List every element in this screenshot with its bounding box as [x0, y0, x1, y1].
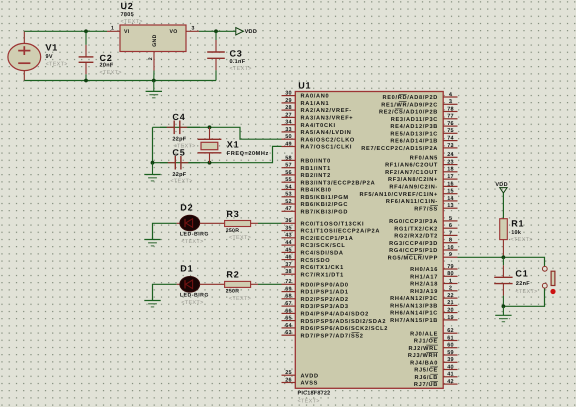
svg-text:RF2/AN7/C1OUT: RF2/AN7/C1OUT	[385, 169, 438, 176]
svg-text:RD7/PSP7/AD7/SS2: RD7/PSP7/AD7/SS2	[301, 332, 364, 339]
U1 left pin names group 4	[301, 373, 319, 386]
svg-text:RG1/TX2/CK2: RG1/TX2/CK2	[394, 225, 438, 232]
svg-text:RH5/AN13/P3B: RH5/AN13/P3B	[390, 303, 438, 310]
svg-text:RA6/OSC2/CLKO: RA6/OSC2/CLKO	[301, 136, 355, 143]
ground symbol below C1	[502, 306, 504, 315]
U1 right pin names group 1	[359, 154, 438, 212]
svg-text:R1: R1	[511, 219, 524, 229]
U1 left pin stubs group 3	[282, 284, 296, 335]
junction at crystal bottom	[208, 161, 212, 165]
svg-text:37: 37	[285, 262, 292, 268]
svg-text:RC3/SCK/SCL: RC3/SCK/SCL	[301, 242, 346, 249]
svg-text:69: 69	[285, 287, 292, 293]
U1 left pin stubs group 2	[282, 223, 296, 274]
svg-text:65: 65	[285, 316, 292, 322]
svg-text:RE3/AD11/P3C: RE3/AD11/P3C	[391, 116, 438, 123]
wire: U2 GND pin to ground rail	[153, 71, 155, 81]
junction at C2 bottom	[84, 79, 88, 83]
svg-text:RF1/AN6/C2OUT: RF1/AN6/C2OUT	[385, 162, 438, 169]
svg-text:54: 54	[285, 184, 292, 190]
U1 right pin stubs group 3	[443, 269, 457, 320]
svg-text:RB1/INT1: RB1/INT1	[301, 165, 331, 172]
svg-text:47: 47	[285, 206, 292, 212]
svg-text:RA4/T0CKI: RA4/T0CKI	[301, 122, 336, 129]
svg-text:VDD: VDD	[245, 29, 258, 35]
svg-text:RA1/AN1: RA1/AN1	[301, 100, 330, 107]
svg-text:RB6/KBI2/PGC: RB6/KBI2/PGC	[301, 201, 349, 208]
svg-text:RD1/PSP1/AD1: RD1/PSP1/AD1	[301, 289, 349, 296]
svg-text:50: 50	[285, 134, 292, 140]
svg-text:250R: 250R	[226, 289, 240, 295]
svg-text:V1: V1	[46, 43, 59, 53]
U1 left pin numbers group 1	[285, 155, 292, 212]
svg-text:42: 42	[447, 379, 454, 385]
wire: V1+ to U2 VI	[24, 30, 107, 32]
junction at C3 top	[214, 29, 218, 33]
U2 pin 2 stub (GND)	[153, 52, 155, 71]
svg-text:RC0/T1OSO/T13CKI: RC0/T1OSO/T13CKI	[301, 220, 365, 227]
svg-text:49: 49	[285, 141, 292, 147]
U1 left pin numbers group 4	[285, 370, 292, 383]
U1 right pin stubs group 4	[443, 333, 457, 384]
svg-text:22: 22	[447, 293, 454, 299]
svg-text:61: 61	[447, 335, 454, 341]
svg-text:8: 8	[449, 238, 452, 244]
wire: U2 VO to VDD terminal	[199, 30, 236, 32]
svg-text:RA0/AN0: RA0/AN0	[301, 93, 330, 100]
svg-text:VI: VI	[124, 29, 130, 35]
svg-text:33: 33	[285, 127, 292, 133]
svg-text:25: 25	[285, 370, 292, 376]
junction at crystal top	[208, 125, 212, 129]
svg-text:<TEXT>: <TEXT>	[511, 237, 533, 243]
junction at R1 bottom / C1 top	[502, 255, 506, 259]
U1 left pin numbers group 2	[285, 218, 292, 275]
U1 right pin names group 3	[390, 266, 438, 324]
U1 left pin names group 2	[301, 220, 381, 278]
svg-text:35: 35	[285, 226, 292, 232]
svg-text:RD4/PSP4/AD4/SDO2: RD4/PSP4/AD4/SDO2	[301, 311, 369, 318]
svg-text:40: 40	[447, 364, 454, 370]
U1 right pin numbers group 3	[447, 264, 454, 321]
junction at OSC ground corner	[151, 161, 155, 165]
svg-text:79: 79	[447, 264, 454, 270]
svg-text:58: 58	[285, 155, 292, 161]
svg-text:D1: D1	[180, 264, 193, 274]
svg-text:RF5/AN10/CVREF/C1IN+: RF5/AN10/CVREF/C1IN+	[359, 191, 438, 198]
svg-text:RC1/T1OSI/ECCP2A/P2A: RC1/T1OSI/ECCP2A/P2A	[301, 228, 381, 235]
svg-text:D2: D2	[180, 203, 193, 213]
capacitor C1	[502, 257, 504, 265]
svg-text:3: 3	[192, 25, 195, 31]
U1 left pin stubs group 0	[282, 96, 296, 147]
svg-text:20: 20	[447, 308, 454, 314]
svg-text:RH4/AN12/P3C: RH4/AN12/P3C	[390, 295, 438, 302]
svg-text:RB3/INT3/ECCP2B/P2A: RB3/INT3/ECCP2B/P2A	[301, 179, 376, 186]
svg-text:LED-BIRG: LED-BIRG	[180, 292, 209, 298]
U1 right pin numbers group 1	[447, 152, 454, 209]
svg-text:10: 10	[447, 245, 454, 251]
svg-text:46: 46	[285, 255, 292, 261]
U2 pin 1 stub	[107, 30, 120, 32]
svg-text:RA2/AN2/VREF-: RA2/AN2/VREF-	[301, 107, 352, 114]
svg-text:RE0/RD/AD8/P2D: RE0/RD/AD8/P2D	[383, 94, 439, 101]
svg-text:22pF: 22pF	[172, 136, 186, 142]
svg-text:20nF: 20nF	[100, 63, 114, 69]
svg-text:2: 2	[449, 286, 452, 292]
svg-text:RD6/PSP6/AD6/SCK2/SCL2: RD6/PSP6/AD6/SCK2/SCL2	[301, 325, 389, 332]
svg-text:53: 53	[285, 192, 292, 198]
LED D2	[177, 215, 225, 231]
svg-text:38: 38	[285, 269, 292, 275]
svg-text:77: 77	[447, 114, 454, 120]
push button SW	[542, 266, 555, 288]
U1 right pin stubs group 0	[443, 97, 457, 148]
svg-text:RA7/OSC1/CLKI: RA7/OSC1/CLKI	[301, 144, 353, 151]
svg-text:9: 9	[449, 252, 452, 258]
svg-text:3: 3	[449, 99, 452, 105]
wire: U1 pin 9 MCLR to button	[458, 257, 545, 266]
U1 left pin numbers group 0	[285, 91, 292, 148]
svg-text:7805: 7805	[121, 12, 134, 18]
svg-text:C1: C1	[515, 269, 528, 279]
svg-text:64: 64	[285, 323, 292, 329]
U1 right pin names group 0	[361, 94, 438, 152]
U1 left pin names group 3	[301, 281, 389, 339]
svg-text:26: 26	[285, 377, 292, 383]
svg-text:45: 45	[285, 247, 292, 253]
capacitor C2	[85, 31, 87, 45]
svg-text:RC4/SDI/SDA: RC4/SDI/SDA	[301, 250, 344, 257]
svg-text:60: 60	[447, 343, 454, 349]
wire: ground rail under V1/C2/U2/C3	[24, 80, 216, 82]
svg-text:RA5/AN4/LVDIN: RA5/AN4/LVDIN	[301, 129, 352, 136]
svg-text:<TEXT>: <TEXT>	[230, 66, 252, 72]
svg-text:C5: C5	[172, 147, 185, 157]
svg-text:RG4/CCP5/P1D: RG4/CCP5/P1D	[389, 247, 438, 254]
svg-text:RF3/AN8/C2IN+: RF3/AN8/C2IN+	[388, 176, 438, 183]
wire: D1 cathode to ground corner	[153, 284, 177, 300]
svg-text:RB5/KBI1/PGM: RB5/KBI1/PGM	[301, 194, 349, 201]
svg-text:<TEXT>: <TEXT>	[170, 179, 192, 185]
svg-text:RH2/A18: RH2/A18	[410, 281, 438, 288]
U1 right pin numbers group 4	[447, 328, 454, 385]
resistor R3	[225, 221, 258, 227]
power terminal VDD top	[236, 28, 244, 35]
svg-text:RH1/A17: RH1/A17	[410, 273, 438, 280]
svg-text:68: 68	[285, 294, 292, 300]
U1 left pin stubs group 1	[282, 160, 296, 211]
U1 left pin numbers group 3	[285, 279, 292, 336]
svg-text:RC5/SDO: RC5/SDO	[301, 257, 331, 264]
wire: R2 to U1 pin 72 RD0	[258, 283, 282, 285]
wire: VDD to R1 top	[502, 193, 504, 219]
capacitor C5	[160, 162, 168, 164]
svg-text:RH7/AN15/P1B: RH7/AN15/P1B	[390, 317, 438, 324]
svg-text:75: 75	[447, 128, 454, 134]
svg-text:16: 16	[447, 181, 454, 187]
crystal X1	[198, 127, 222, 162]
svg-text:1: 1	[449, 278, 452, 284]
svg-text:RE5/AD13/P1C: RE5/AD13/P1C	[390, 130, 438, 137]
U1 right pin stubs group 1	[443, 157, 457, 208]
svg-text:5: 5	[449, 216, 452, 222]
svg-text:RJ3/WRH: RJ3/WRH	[408, 352, 438, 359]
svg-text:RB7/KBI3/PGD: RB7/KBI3/PGD	[301, 208, 349, 215]
svg-text:RB2/INT2: RB2/INT2	[301, 172, 331, 179]
U1 right pin numbers group 0	[447, 92, 454, 149]
svg-text:21: 21	[447, 300, 454, 306]
svg-text:R3: R3	[226, 209, 239, 219]
svg-text:RJ0/ALE: RJ0/ALE	[410, 330, 438, 337]
ground symbol for D1	[152, 298, 154, 301]
junction at C2 top	[84, 29, 88, 33]
svg-text:AVSS: AVSS	[301, 381, 319, 387]
svg-text:<TEXT>: <TEXT>	[229, 235, 251, 241]
svg-text:RE1/WR/AD9/P2C: RE1/WR/AD9/P2C	[381, 101, 438, 108]
svg-text:RE4/AD12/P3B: RE4/AD12/P3B	[390, 123, 438, 130]
svg-text:24: 24	[447, 152, 454, 158]
svg-text:RE2/CS/AD10/P2B: RE2/CS/AD10/P2B	[379, 109, 438, 116]
capacitor C3	[215, 31, 217, 40]
svg-text:43: 43	[285, 233, 292, 239]
svg-text:RJ2/WRL: RJ2/WRL	[409, 345, 438, 352]
svg-text:57: 57	[285, 163, 292, 169]
svg-text:<TEXT>: <TEXT>	[298, 399, 320, 405]
svg-text:RJ6/LB: RJ6/LB	[415, 374, 438, 381]
button actuation red dot	[550, 289, 555, 294]
wire: OSC top rail to U1 pin 50	[153, 127, 282, 139]
svg-text:R2: R2	[226, 270, 239, 280]
svg-text:56: 56	[285, 170, 292, 176]
svg-text:27: 27	[285, 112, 292, 118]
svg-text:PIC18F8722: PIC18F8722	[298, 391, 331, 397]
svg-text:73: 73	[447, 143, 454, 149]
svg-text:10k: 10k	[511, 230, 522, 236]
microcontroller U1 PIC18F8722 body	[295, 92, 443, 389]
U2 pin 3 stub	[186, 30, 199, 32]
svg-text:RJ1/OE: RJ1/OE	[414, 338, 438, 345]
svg-text:30: 30	[285, 91, 292, 97]
svg-text:34: 34	[285, 120, 292, 126]
U1 right pin names group 4	[408, 330, 438, 388]
svg-text:74: 74	[447, 136, 454, 142]
svg-text:15: 15	[447, 189, 454, 195]
svg-text:62: 62	[447, 328, 454, 334]
U1 right pin numbers group 2	[447, 216, 454, 258]
svg-text:41: 41	[447, 372, 454, 378]
svg-text:<TEXT>: <TEXT>	[181, 239, 203, 245]
svg-text:39: 39	[447, 357, 454, 363]
svg-text:9V: 9V	[46, 54, 53, 60]
svg-text:RG0/CCP3/P3A: RG0/CCP3/P3A	[389, 218, 438, 225]
svg-text:23: 23	[447, 160, 454, 166]
svg-text:RD0/PSP0/AD0: RD0/PSP0/AD0	[301, 281, 349, 288]
svg-text:18: 18	[447, 167, 454, 173]
svg-text:RA3/AN3/VREF+: RA3/AN3/VREF+	[301, 115, 354, 122]
svg-text:RF7/SS: RF7/SS	[414, 205, 438, 212]
svg-text:14: 14	[447, 196, 454, 202]
svg-text:RB4/KBI0: RB4/KBI0	[301, 187, 332, 194]
svg-text:RE6/AD14/P1B: RE6/AD14/P1B	[390, 138, 438, 145]
svg-text:13: 13	[447, 203, 454, 209]
svg-text:X1: X1	[227, 140, 240, 150]
ground symbol for D2	[152, 237, 154, 240]
svg-text:RF0/AN5: RF0/AN5	[410, 154, 438, 161]
svg-text:RF6/AN11/C1IN-: RF6/AN11/C1IN-	[386, 198, 438, 205]
wire: R3 to U1 pin 36 RC0	[258, 222, 282, 224]
svg-text:RC2/ECCP1/P1A: RC2/ECCP1/P1A	[301, 235, 354, 242]
wire: C1 bottom to button bottom	[503, 288, 544, 306]
U1 right pin names group 2	[388, 218, 438, 261]
svg-text:59: 59	[447, 350, 454, 356]
wire: D2 cathode to ground corner	[153, 223, 177, 239]
svg-text:AVDD: AVDD	[301, 373, 319, 379]
svg-text:C2: C2	[100, 53, 113, 63]
svg-text:RB0/INT0: RB0/INT0	[301, 158, 331, 165]
svg-text:C3: C3	[230, 49, 243, 59]
svg-text:72: 72	[285, 279, 292, 285]
svg-text:<TEXT>: <TEXT>	[515, 289, 537, 295]
svg-text:RH3/A19: RH3/A19	[410, 288, 438, 295]
svg-text:0.1nF: 0.1nF	[230, 59, 246, 65]
svg-text:19: 19	[447, 315, 454, 321]
svg-text:55: 55	[285, 177, 292, 183]
svg-text:36: 36	[285, 218, 292, 224]
svg-text:U2: U2	[121, 1, 134, 11]
svg-text:17: 17	[447, 174, 454, 180]
svg-text:63: 63	[285, 330, 292, 336]
U1 left pin stubs group 4	[282, 375, 296, 382]
svg-text:6: 6	[449, 223, 452, 229]
svg-text:<TEXT>: <TEXT>	[181, 300, 203, 306]
svg-text:80: 80	[447, 271, 454, 277]
svg-text:52: 52	[285, 199, 292, 205]
svg-text:67: 67	[285, 301, 292, 307]
svg-text:<TEXT>: <TEXT>	[121, 19, 143, 25]
svg-text:GND: GND	[152, 34, 158, 46]
svg-text:VDD: VDD	[495, 182, 508, 188]
svg-text:22pF: 22pF	[172, 172, 186, 178]
svg-text:RJ7/UB: RJ7/UB	[414, 381, 438, 388]
svg-text:RF4/AN9/C2IN-: RF4/AN9/C2IN-	[389, 184, 438, 191]
svg-text:<TEXT>: <TEXT>	[229, 296, 251, 302]
svg-text:78: 78	[447, 106, 454, 112]
svg-text:RD2/PSP2/AD2: RD2/PSP2/AD2	[301, 296, 349, 303]
svg-text:<TEXT>: <TEXT>	[46, 61, 68, 67]
svg-text:RJ4/BA0: RJ4/BA0	[410, 359, 438, 366]
svg-text:RG2/RX2/DT2: RG2/RX2/DT2	[394, 233, 438, 240]
regulator U2 7805 body	[120, 25, 186, 52]
U1 right pin stubs group 2	[443, 221, 457, 257]
svg-text:66: 66	[285, 308, 292, 314]
U1 left pin names group 0	[301, 93, 355, 151]
svg-text:28: 28	[285, 105, 292, 111]
svg-text:RD3/PSP3/AD3: RD3/PSP3/AD3	[301, 303, 349, 310]
svg-text:C4: C4	[172, 112, 185, 122]
resistor R1	[500, 219, 508, 258]
svg-text:76: 76	[447, 121, 454, 127]
junction at U2 GND	[152, 79, 156, 83]
wire: OSC bottom rail to U1 pin 49	[153, 146, 282, 162]
svg-text:29: 29	[285, 98, 292, 104]
svg-text:RJ5/CE: RJ5/CE	[414, 367, 438, 374]
svg-text:RC7/RX1/DT1: RC7/RX1/DT1	[301, 271, 344, 278]
svg-text:44: 44	[285, 240, 292, 246]
svg-text:<TEXT>: <TEXT>	[100, 70, 122, 76]
svg-text:2: 2	[148, 57, 154, 60]
resistor R2	[225, 281, 258, 287]
svg-text:VO: VO	[170, 29, 178, 35]
battery V1	[8, 31, 41, 80]
wire: OSC left vertical	[152, 127, 154, 162]
svg-text:RE7/ECCP2C/AD15/P2A: RE7/ECCP2C/AD15/P2A	[361, 145, 438, 152]
capacitor C4	[160, 126, 167, 128]
svg-text:FREQ=20MHz: FREQ=20MHz	[227, 151, 269, 157]
svg-text:250R: 250R	[226, 228, 240, 234]
svg-text:1: 1	[111, 25, 114, 31]
U1 left pin names group 1	[301, 158, 376, 216]
svg-text:RG3/CCP4/P3D: RG3/CCP4/P3D	[389, 240, 438, 247]
svg-text:22nF: 22nF	[516, 281, 530, 287]
junction at C1 bottom	[502, 304, 506, 308]
power terminal VDD right	[500, 188, 507, 193]
svg-text:U1: U1	[298, 80, 311, 90]
svg-text:RD5/PSP5/AD5/SDI2/SDA2: RD5/PSP5/AD5/SDI2/SDA2	[301, 318, 387, 325]
svg-text:RG5/MCLR/VPP: RG5/MCLR/VPP	[388, 254, 438, 261]
ground symbol under U2	[153, 81, 155, 92]
svg-text:RH6/AN14/P1C: RH6/AN14/P1C	[390, 310, 438, 317]
svg-text:7: 7	[449, 230, 452, 236]
svg-text:RH0/A16: RH0/A16	[410, 266, 438, 273]
LED D1	[177, 276, 225, 292]
svg-text:RC6/TX1/CK1: RC6/TX1/CK1	[301, 264, 344, 271]
ground symbol below crystal rails	[152, 163, 154, 175]
svg-text:LED-BIRG: LED-BIRG	[180, 231, 209, 237]
